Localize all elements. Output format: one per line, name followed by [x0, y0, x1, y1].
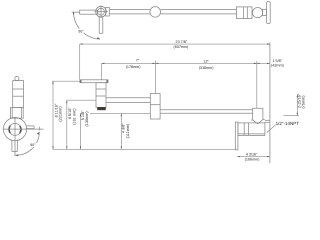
svg-text:(178mm): (178mm): [126, 65, 141, 69]
svg-text:(130mm): (130mm): [85, 111, 89, 127]
svg-text:90°: 90°: [78, 29, 84, 33]
svg-text:1 5/8": 1 5/8": [272, 59, 282, 63]
svg-text:(106mm): (106mm): [245, 157, 260, 161]
svg-text:4 3/16": 4 3/16": [246, 153, 258, 157]
svg-text:23 7/8": 23 7/8": [176, 40, 188, 44]
svg-text:(221mm): (221mm): [59, 106, 63, 122]
svg-text:90°: 90°: [30, 143, 36, 147]
svg-text:1/2"-14NPT: 1/2"-14NPT: [276, 121, 300, 126]
svg-text:(607mm): (607mm): [174, 45, 189, 49]
svg-text:(161 mm): (161 mm): [72, 108, 76, 125]
svg-text:(330mm): (330mm): [199, 66, 214, 70]
svg-text:(42mm): (42mm): [271, 63, 284, 67]
svg-text:(75mm): (75mm): [302, 95, 306, 109]
svg-text:13": 13": [203, 59, 209, 63]
svg-text:(111mm): (111mm): [126, 123, 130, 138]
